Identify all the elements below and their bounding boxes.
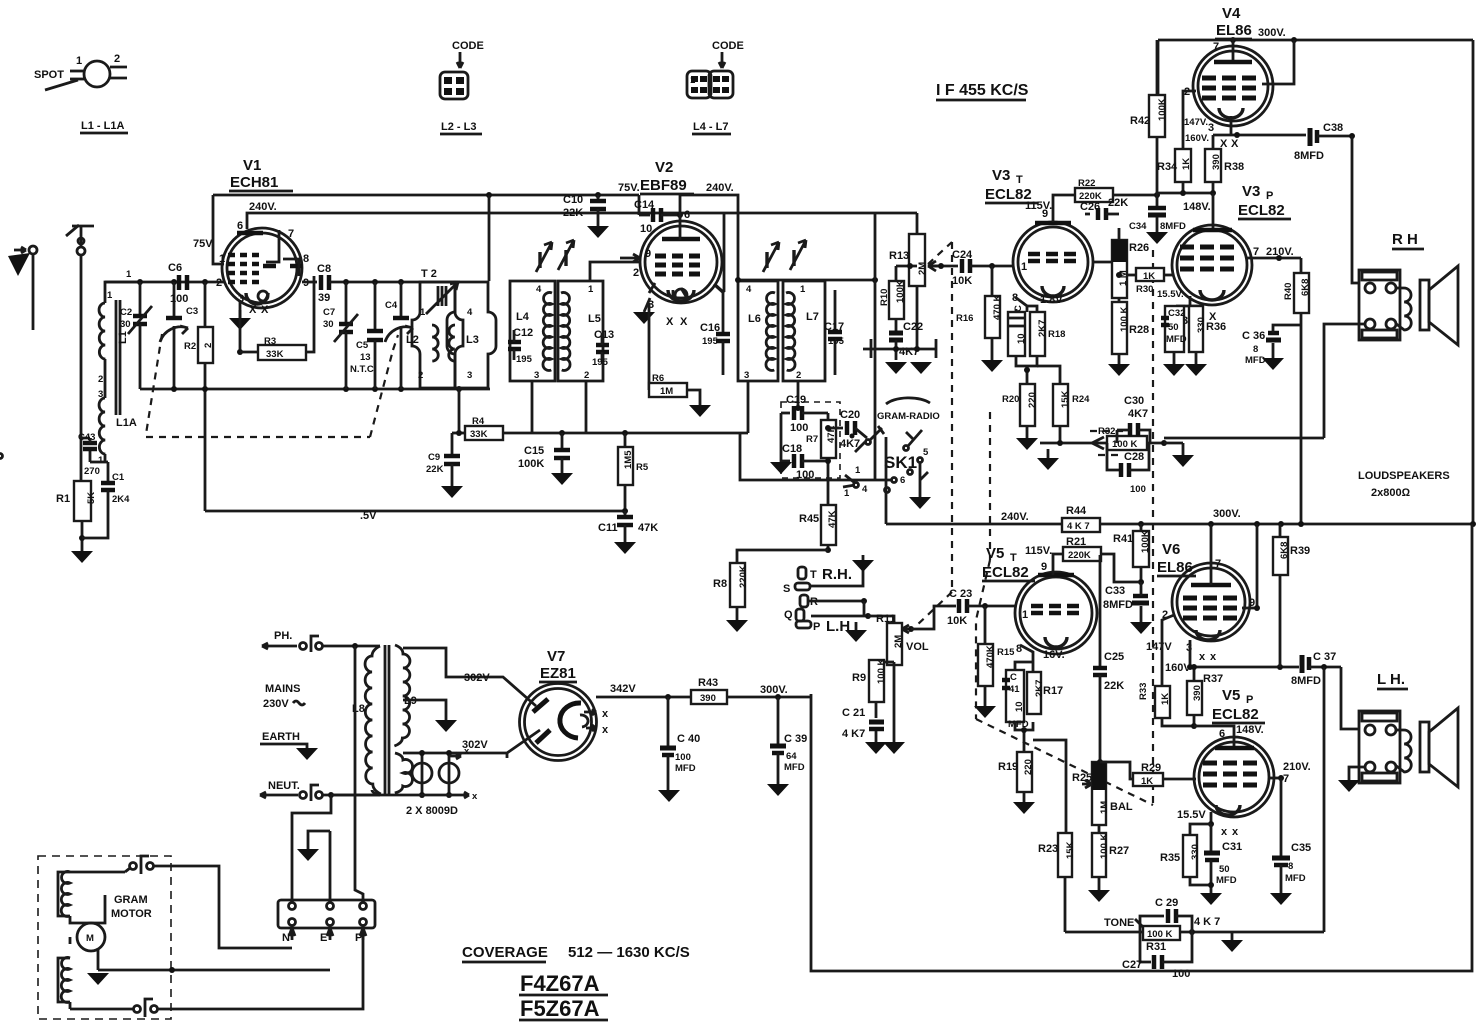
AM detector line y349: [863, 339, 936, 358]
capacitor C25 22K: [1093, 555, 1124, 762]
svg-text:ECH81: ECH81: [230, 174, 278, 191]
svg-text:C 23: C 23: [949, 588, 972, 600]
svg-text:300V.: 300V.: [760, 684, 788, 696]
capacitor C2 30 (trimmer): [120, 282, 152, 389]
capacitor C43 270: [78, 432, 105, 477]
svg-text:10: 10: [1016, 333, 1027, 344]
wire L4 bottom to bus: [531, 381, 534, 433]
svg-text:4 K 7: 4 K 7: [1194, 916, 1220, 928]
svg-text:L3: L3: [466, 334, 479, 346]
svg-text:C26: C26: [1080, 201, 1100, 213]
svg-text:C18: C18: [782, 443, 802, 455]
svg-text:R17: R17: [1043, 685, 1063, 697]
svg-text:MOTOR: MOTOR: [111, 908, 152, 920]
resistor R37 390: [1187, 667, 1223, 729]
svg-text:342V: 342V: [610, 683, 636, 695]
resistor R8 220K: [713, 563, 749, 632]
top supply line y195: [213, 192, 639, 198]
svg-text:C1: C1: [112, 472, 125, 483]
resistor R6 1M: [649, 303, 711, 417]
svg-text:R29: R29: [1141, 762, 1161, 774]
RH label: [1392, 231, 1424, 249]
svg-text:X: X: [249, 304, 257, 316]
aerial chassis arrow: [8, 246, 37, 330]
svg-text:220: 220: [1027, 392, 1038, 408]
svg-text:100K: 100K: [1140, 530, 1151, 553]
svg-text:16V.: 16V.: [1043, 649, 1065, 661]
svg-text:R39: R39: [1290, 545, 1310, 557]
svg-text:470 K: 470 K: [992, 295, 1003, 320]
resistor R4 33K: [465, 416, 503, 440]
capacitor C27 100: [1122, 932, 1192, 980]
svg-text:1.8V: 1.8V: [1040, 294, 1063, 306]
svg-text:6K8: 6K8: [1279, 542, 1290, 559]
svg-text:C33: C33: [1105, 585, 1125, 597]
svg-text:TONE: TONE: [1104, 917, 1134, 929]
capacitor C8 39: [302, 263, 460, 304]
svg-text:x: x: [472, 791, 478, 802]
svg-text:22K: 22K: [1104, 680, 1124, 692]
svg-text:148V.: 148V.: [1236, 724, 1264, 736]
wire L5 top to V2 grid: [590, 262, 640, 281]
svg-text:R1: R1: [56, 493, 70, 505]
tube V1 ECH81: [193, 157, 309, 316]
svg-text:1: 1: [1022, 609, 1028, 621]
capacitor C40 100MFD: [658, 697, 700, 802]
RH speaker cone: [1420, 266, 1458, 345]
svg-text:R44: R44: [1066, 505, 1087, 517]
svg-text:I F 455 KC/S: I F 455 KC/S: [936, 82, 1029, 99]
svg-text:100K: 100K: [518, 458, 544, 470]
heater secondary: [395, 753, 413, 793]
svg-text:148V.: 148V.: [1183, 201, 1211, 213]
svg-text:2K4: 2K4: [112, 494, 130, 505]
svg-text:x: x: [1210, 651, 1217, 663]
wire T2 bottom to bus: [458, 388, 461, 433]
connector block N-E-P: [278, 900, 375, 944]
wire V6 grid down: [1162, 615, 1174, 686]
wire L1A bottom: [104, 454, 107, 462]
svg-text:2: 2: [98, 374, 103, 385]
svg-text:6K8: 6K8: [1300, 279, 1311, 296]
node line under R34/R38: [1157, 190, 1216, 196]
main grid line y282: [105, 269, 224, 285]
gram switch lower: [70, 999, 158, 1017]
svg-text:R7: R7: [806, 434, 818, 445]
wire E to chassis: [308, 831, 330, 903]
svg-text:V4: V4: [1222, 5, 1241, 22]
PH terminal and switch: [262, 630, 380, 652]
svg-text:C30: C30: [1124, 395, 1144, 407]
svg-text:195: 195: [592, 357, 609, 368]
svg-text:240V.: 240V.: [706, 182, 734, 194]
pad S: [783, 583, 810, 595]
svg-text:C38: C38: [1323, 122, 1343, 134]
svg-text:47K: 47K: [638, 522, 658, 534]
balance pot R25 1M BAL: [1072, 759, 1133, 825]
IF bus y433: [452, 430, 748, 436]
svg-text:1: 1: [98, 455, 104, 466]
resistor R39 6K8: [1273, 524, 1310, 667]
wire B+ to L4 top: [488, 195, 491, 281]
svg-text:R16: R16: [956, 313, 973, 324]
tube V2 EBF89: [618, 159, 734, 328]
capacitor C4 (variable): [385, 282, 413, 389]
svg-text:R35: R35: [1160, 852, 1180, 864]
resistor R44 4K7: [1062, 505, 1100, 532]
svg-text:2: 2: [114, 53, 120, 65]
svg-text:EL86: EL86: [1216, 22, 1252, 39]
svg-text:F4Z67A: F4Z67A: [520, 971, 600, 996]
svg-text:75V.: 75V.: [618, 182, 640, 194]
svg-text:C27: C27: [1122, 959, 1142, 971]
svg-text:x: x: [1221, 826, 1228, 838]
svg-text:C34: C34: [1129, 221, 1147, 232]
wire L7 bottom to detector: [797, 381, 800, 408]
svg-text:R H: R H: [1392, 231, 1418, 248]
capacitor C1 2K4: [82, 462, 130, 538]
capacitor C6 100: [168, 262, 188, 305]
pin tick V2 plate: [714, 284, 724, 293]
resistor R9 100K: [852, 659, 894, 718]
svg-text:1: 1: [107, 290, 113, 301]
svg-text:195: 195: [516, 354, 533, 365]
svg-text:C6: C6: [168, 262, 182, 274]
resistor R3 33K: [237, 276, 314, 360]
resistor R16 470K: [956, 266, 1003, 372]
NEUT terminal and switch: [260, 780, 380, 801]
svg-text:C5: C5: [356, 340, 369, 351]
svg-text:R45: R45: [799, 513, 819, 525]
svg-text:1: 1: [588, 284, 594, 295]
resistor R21 220K: [1053, 536, 1139, 582]
capacitor C5 13 N.T.C: [350, 282, 383, 389]
resistor R33 1K: [1138, 683, 1194, 726]
grid arrow pin9: [620, 254, 640, 262]
svg-text:CODE: CODE: [452, 40, 484, 52]
svg-text:270: 270: [84, 466, 100, 477]
svg-text:C3: C3: [186, 306, 198, 317]
wire 240V drop to IF2: [680, 195, 738, 280]
svg-text:C 29: C 29: [1155, 897, 1178, 909]
svg-text:C: C: [1010, 672, 1017, 683]
wire L5 bottom to bus: [585, 381, 588, 433]
capacitor C36 8MFD: [1242, 325, 1301, 370]
svg-text:100: 100: [170, 293, 188, 305]
capacitor C21 4K7: [842, 707, 887, 754]
capacitor C20 4K7: [825, 409, 867, 450]
right frame wire: [1472, 40, 1475, 523]
svg-text:C9: C9: [428, 452, 440, 463]
cathode line V4: [1213, 116, 1306, 138]
wire V4 screen to rail: [1262, 40, 1294, 84]
T2 core and arrow: [426, 282, 458, 314]
svg-text:C20: C20: [840, 409, 860, 421]
svg-text:1K: 1K: [1181, 158, 1192, 170]
svg-text:BAL: BAL: [1110, 801, 1133, 813]
svg-text:ECL82: ECL82: [982, 564, 1029, 581]
svg-text:39: 39: [318, 292, 330, 304]
svg-text:R24: R24: [1072, 394, 1090, 405]
svg-text:1: 1: [844, 488, 850, 499]
svg-text:390: 390: [1192, 685, 1203, 701]
svg-text:MFD: MFD: [1245, 355, 1266, 366]
wire R13 top to IF2 shield node: [916, 213, 919, 234]
svg-text:R3: R3: [264, 336, 276, 347]
svg-text:MFD: MFD: [784, 762, 805, 773]
tone control R31 100K: [1104, 917, 1180, 953]
ground right of C21: [883, 665, 905, 754]
svg-text:P: P: [1246, 694, 1253, 706]
svg-text:10K: 10K: [952, 275, 972, 287]
svg-text:3: 3: [744, 370, 749, 381]
svg-text:C24: C24: [952, 249, 973, 261]
svg-text:L7: L7: [806, 311, 819, 323]
svg-text:15K: 15K: [1065, 841, 1076, 859]
capacitor C37 8MFD: [1291, 651, 1341, 687]
tone feedback line: [1065, 667, 1324, 935]
ground under R13 leg: [910, 362, 932, 374]
svg-text:7: 7: [1253, 246, 1259, 258]
svg-text:390: 390: [1211, 154, 1222, 170]
ground under C22: [885, 362, 907, 374]
svg-text:41: 41: [1009, 684, 1020, 695]
svg-text:R18: R18: [1048, 329, 1065, 340]
svg-text:C12: C12: [513, 327, 533, 339]
svg-text:CODE: CODE: [712, 40, 744, 52]
capacitor C18 100: [770, 413, 831, 481]
svg-text:100: 100: [1130, 484, 1146, 495]
LH speaker cone: [1420, 708, 1458, 787]
svg-text:LOUDSPEAKERS: LOUDSPEAKERS: [1358, 470, 1450, 482]
wire V1 pin3 to ground: [239, 300, 242, 318]
mains transformer primary L8: [352, 646, 381, 794]
svg-text:R20: R20: [1002, 394, 1019, 405]
IF1 can L4/C12: [508, 281, 555, 381]
svg-text:L4: L4: [516, 311, 530, 323]
capacitor C28 100: [1107, 443, 1149, 495]
svg-text:GRAM: GRAM: [114, 894, 148, 906]
svg-text:R30: R30: [1136, 284, 1153, 295]
tube V7 EZ81: [520, 648, 610, 761]
svg-text:L2: L2: [406, 334, 419, 346]
svg-text:33K: 33K: [470, 429, 488, 440]
gram motor label: [111, 894, 152, 920]
svg-text:3: 3: [534, 370, 539, 381]
wires S to ground: [810, 555, 874, 586]
svg-text:30: 30: [323, 319, 334, 330]
svg-text:100: 100: [790, 422, 808, 434]
svg-text:R.H.: R.H.: [822, 566, 852, 583]
label L2-L3: [440, 121, 482, 134]
resistor R13 2M (IF gain pot): [889, 234, 940, 349]
svg-text:MFD: MFD: [1166, 334, 1187, 345]
motor M: [70, 895, 105, 951]
svg-text:15.5V: 15.5V: [1177, 809, 1206, 821]
label L4-L7: [692, 121, 731, 134]
resistor R36 330: [1185, 306, 1226, 376]
svg-text:4: 4: [467, 307, 473, 318]
svg-text:R13: R13: [889, 250, 909, 262]
svg-text:C32: C32: [1168, 308, 1185, 319]
node line over IF2 tops: [735, 277, 878, 283]
svg-text:R10: R10: [879, 289, 890, 306]
tube V6 EL86: [1146, 541, 1255, 674]
svg-text:C 39: C 39: [784, 733, 807, 745]
svg-text:195: 195: [828, 336, 845, 347]
wiper R11 to C23: [911, 606, 947, 629]
capacitor C7 30 (trimmer): [323, 282, 358, 389]
tube V5P ECL82: [1177, 687, 1311, 838]
svg-text:1: 1: [1021, 261, 1027, 273]
svg-text:1: 1: [855, 465, 861, 476]
IF2 can L6/C16: [738, 281, 778, 381]
capacitor C15 100K: [518, 433, 573, 485]
svg-text:8MFD: 8MFD: [1103, 599, 1133, 611]
svg-text:R4: R4: [472, 416, 485, 427]
svg-text:x: x: [602, 724, 609, 736]
resistor R41 100K: [1113, 524, 1151, 585]
capacitor C16 195: [700, 290, 730, 375]
svg-text:x: x: [464, 746, 470, 757]
model F4Z67A: [519, 971, 608, 996]
IF transformer T2 L2 box: [406, 268, 455, 388]
capacitor C34 8MFD: [1129, 195, 1186, 244]
svg-text:C19: C19: [786, 394, 806, 406]
svg-text:2 X 8009D: 2 X 8009D: [406, 805, 458, 817]
wire gram switch lower to P: [158, 930, 363, 1009]
svg-text:2: 2: [203, 343, 214, 348]
ground V2 pin3: [633, 298, 655, 324]
IF2 can L7/C17: [783, 281, 825, 381]
svg-text:4K7: 4K7: [1128, 408, 1148, 420]
svg-text:2M: 2M: [917, 262, 928, 275]
svg-text:1: 1: [420, 307, 426, 318]
pad Q: [784, 609, 804, 621]
wire detector line y480: [740, 433, 891, 480]
svg-text:147V.: 147V.: [1184, 117, 1208, 128]
svg-text:7: 7: [1283, 773, 1289, 785]
ground right of R32: [1164, 443, 1194, 467]
svg-text:2M: 2M: [893, 635, 904, 648]
svg-text:9: 9: [1042, 208, 1048, 220]
svg-text:L6: L6: [748, 313, 761, 325]
svg-text:MFD: MFD: [675, 763, 696, 774]
feedback node under V3T: [1037, 440, 1107, 470]
resistor R30 1K: [1116, 268, 1174, 295]
capacitor C23 10K: [947, 588, 1016, 627]
dashed box around detector RC: [781, 402, 840, 478]
wire lamp bus: [331, 794, 455, 797]
svg-text:X: X: [261, 304, 269, 316]
resistor R24 15K: [1037, 366, 1090, 443]
resistor R1 5K: [56, 481, 97, 521]
svg-text:8: 8: [1288, 861, 1293, 872]
wire cathode node to R23: [1033, 740, 1066, 833]
switch SK1 gram-radio: [0, 398, 940, 509]
svg-text:4 K7: 4 K7: [842, 728, 865, 740]
svg-text:7: 7: [1213, 41, 1219, 53]
svg-text:L5: L5: [588, 313, 601, 325]
svg-text:10: 10: [1014, 701, 1025, 712]
wire V7 cathode out 342V: [596, 683, 691, 700]
svg-text:C 21: C 21: [842, 707, 865, 719]
svg-text:115V.: 115V.: [1025, 545, 1052, 557]
svg-text:C17: C17: [824, 321, 844, 333]
svg-text:330: 330: [1190, 844, 1201, 860]
svg-text:C10: C10: [563, 194, 583, 206]
capacitor C39 64MFD: [767, 697, 807, 796]
svg-text:100K: 100K: [1157, 98, 1168, 121]
svg-text:13: 13: [360, 352, 371, 363]
svg-text:R34: R34: [1157, 161, 1178, 173]
model F5Z67A: [519, 996, 608, 1021]
svg-text:220K: 220K: [738, 565, 749, 588]
transformer core: [385, 645, 389, 795]
svg-text:T: T: [810, 569, 817, 581]
svg-text:30: 30: [120, 319, 131, 330]
wire R45 to R8: [737, 550, 828, 563]
svg-text:V5: V5: [986, 545, 1004, 562]
svg-text:C2: C2: [120, 307, 132, 318]
wire rail to V6 plate: [1210, 524, 1213, 585]
svg-text:8MFD: 8MFD: [1291, 675, 1321, 687]
svg-text:240V.: 240V.: [249, 201, 277, 213]
B+ loop bottom: [811, 524, 1472, 971]
resistor R26 1M: [1093, 228, 1149, 298]
svg-text:x: x: [1199, 651, 1206, 663]
svg-text:8: 8: [303, 253, 309, 265]
svg-text:6: 6: [237, 220, 243, 232]
svg-text:160V.: 160V.: [1185, 133, 1209, 144]
wire 240V to V2 plate: [679, 195, 682, 240]
wire C38 to RH speaker: [1352, 136, 1359, 283]
svg-text:8: 8: [1253, 344, 1258, 355]
svg-text:F5Z67A: F5Z67A: [520, 996, 600, 1021]
svg-text:220: 220: [1023, 759, 1034, 775]
svg-text:T: T: [1010, 552, 1017, 564]
capacitor C35 8MFD: [1270, 842, 1311, 905]
dashed tuning-gang link: [146, 334, 398, 437]
svg-text:R28: R28: [1129, 324, 1149, 336]
240V line y213: [247, 213, 917, 229]
svg-text:X: X: [666, 316, 674, 328]
svg-text:L1 - L1A: L1 - L1A: [81, 120, 124, 132]
svg-text:1: 1: [126, 269, 132, 280]
svg-text:1: 1: [76, 55, 82, 67]
LH transformer ground: [1338, 767, 1364, 792]
svg-text:.5V: .5V: [360, 510, 377, 522]
pad P: [796, 618, 850, 635]
svg-text:4: 4: [862, 484, 868, 495]
svg-text:V5: V5: [1222, 687, 1240, 704]
svg-text:R23: R23: [1038, 843, 1058, 855]
svg-text:9: 9: [645, 248, 651, 260]
HT secondary L9: [394, 645, 416, 746]
svg-text:MFD: MFD: [1285, 873, 1306, 884]
wire NEUT to primary bottom: [372, 790, 380, 795]
svg-text:EBF89: EBF89: [640, 177, 687, 194]
coverage text: [462, 944, 690, 962]
resistor R29 1K: [1100, 762, 1196, 787]
capacitor C19 100: [781, 394, 828, 434]
ground under V1: [229, 318, 251, 330]
svg-text:47K: 47K: [827, 510, 838, 528]
resistor R27 100K: [1088, 825, 1129, 902]
label L1-L1A: [80, 120, 128, 133]
resistor R28 100K: [1108, 298, 1149, 376]
resistor R43 390: [691, 677, 811, 704]
